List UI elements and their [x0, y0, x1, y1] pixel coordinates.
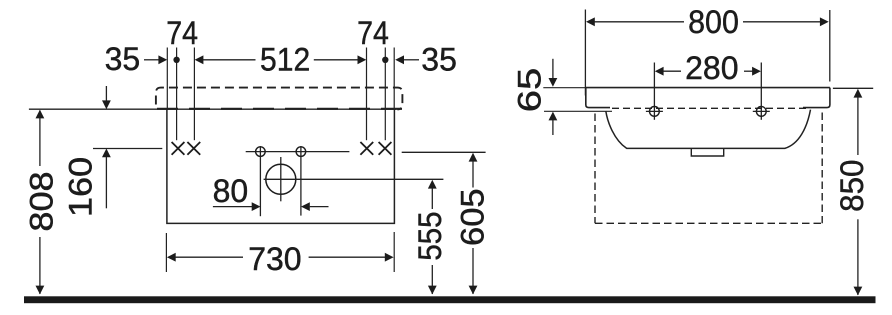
wire 160 top arrow stem: [105, 86, 107, 101]
dim 808 vertical line lower segment: [39, 237, 41, 294]
arrow 35L right-pointing: [158, 55, 167, 64]
arrow 800 left-pointing: [586, 17, 595, 26]
extension line 280 right: [760, 63, 762, 120]
svg-text:730: 730: [248, 241, 301, 277]
wire tap hole left horizontal tick: [646, 110, 663, 112]
svg-text:850: 850: [834, 160, 870, 212]
washbasin bowl profile: [606, 110, 811, 149]
arrow 280 right-pointing: [752, 67, 761, 76]
arrow 35R left-pointing: [395, 55, 404, 64]
arrow 605 top up-pointing: [469, 153, 478, 162]
dim 555 lower stem: [431, 265, 433, 294]
arrow 808 bottom down-pointing: [36, 286, 45, 295]
arrow 850 top up-pointing: [854, 89, 863, 98]
dim 808 vertical line upper segment: [39, 111, 41, 167]
tap hole circle left (side view): [650, 107, 660, 117]
svg-text:555: 555: [412, 212, 448, 261]
extension line 800 right: [829, 10, 831, 82]
node dot left hole: [173, 57, 179, 63]
arrow 80 left-pointing: [301, 202, 310, 211]
svg-text:160: 160: [63, 157, 99, 217]
arrow 555 top up-pointing: [428, 180, 437, 189]
wire 800 dim line left: [594, 21, 684, 23]
svg-text:80: 80: [213, 173, 249, 209]
extension line cabinet left edge (top): [166, 48, 168, 110]
arrow 730 left-pointing: [167, 253, 176, 262]
wire drain center line to 555: [264, 178, 444, 180]
wire tap-hole level extension to 605: [402, 151, 486, 153]
tap hole circle right (side view): [756, 107, 766, 117]
dim 850 upper stem: [857, 97, 859, 155]
wire tap hole left vertical crosshair: [259, 146, 261, 216]
wire 280 dim line right: [744, 70, 753, 72]
wire 80 dim line left: [213, 206, 252, 208]
svg-text:800: 800: [688, 4, 739, 40]
dim 605 lower stem: [472, 248, 474, 294]
wire 160 bottom arrow stem: [105, 157, 107, 208]
wire 65 top arrow stem: [552, 59, 554, 79]
washbasin dashed outline front view: [156, 88, 403, 110]
wire 35R dim line: [404, 59, 419, 61]
wire 35L dim line: [144, 59, 159, 61]
arrow 850 bottom down-pointing: [854, 287, 863, 296]
arrow 512 right-pointing: [358, 55, 367, 64]
svg-text:35: 35: [421, 42, 457, 78]
wire basin top extension left: [543, 87, 586, 89]
wire 280 dim line left: [663, 70, 681, 72]
wire 850 top extension line: [833, 87, 873, 89]
arrow 808 top up-pointing: [36, 110, 45, 119]
extension line hole R2: [384, 48, 386, 141]
arrow 605 bottom down-pointing: [469, 286, 478, 295]
wire X-hole level line (left of cabinet): [93, 148, 162, 150]
svg-text:512: 512: [260, 42, 310, 78]
arrow 65 top down-pointing: [549, 78, 558, 87]
extension line 730 left: [165, 233, 167, 272]
wire 512 dim line left part: [203, 59, 256, 61]
tap hole circle left: [256, 147, 266, 157]
wire drain hole vertical crosshair: [280, 157, 282, 201]
mounting hole X mark 3: [360, 142, 373, 155]
arrow 160 top down-pointing: [102, 100, 111, 109]
svg-text:35: 35: [105, 41, 141, 77]
arrow 512 left-pointing: [195, 55, 204, 64]
wire wall top line left view: [29, 108, 396, 110]
mounting hole X mark 2: [187, 142, 200, 155]
washbasin dashed bottom edge (long dashes): [157, 108, 402, 110]
svg-text:280: 280: [685, 50, 738, 86]
wire 730 dim line left: [175, 256, 243, 258]
extension line 730 right: [393, 232, 395, 272]
wire tap hole right horizontal tick: [753, 110, 770, 112]
wire 65 bottom arrow stem: [552, 120, 554, 135]
wire basin underside extension left: [544, 110, 612, 112]
arrow 65 bottom up-pointing: [549, 112, 558, 121]
mounting hole X mark 4: [379, 142, 392, 155]
arrow 160 bottom up-pointing: [102, 149, 111, 158]
arrow 280 left-pointing: [655, 67, 664, 76]
extension line cabinet right edge (top): [393, 48, 395, 110]
mounting hole X mark 1: [172, 142, 185, 155]
extension line 280 left: [653, 63, 655, 120]
wire tap-hole center line: [246, 151, 350, 153]
wire 80 dim line right: [310, 206, 329, 208]
dashed clearance box right edge: [821, 113, 823, 224]
node dot right hole: [382, 57, 388, 63]
tap hole circle right: [296, 147, 306, 157]
extension line hole L1: [176, 48, 178, 141]
vanity unit outline: [167, 109, 395, 223]
dashed clearance box left edge: [594, 114, 596, 224]
washbasin rim hidden bottom edge (dashed): [612, 107, 806, 109]
arrow 80 right-pointing: [252, 202, 261, 211]
washbasin rim side/profile rect: [586, 88, 830, 108]
svg-text:74: 74: [166, 16, 198, 51]
svg-text:65: 65: [512, 68, 548, 113]
extension line hole L2: [193, 48, 195, 141]
svg-text:74: 74: [357, 16, 389, 51]
wire 800 dim line right: [743, 21, 821, 23]
dim 555 upper stem: [431, 188, 433, 209]
extension line 800 left: [584, 10, 586, 96]
dashed clearance box bottom edge: [595, 222, 822, 224]
svg-text:808: 808: [24, 171, 60, 231]
svg-text:605: 605: [456, 188, 492, 246]
floor line: [24, 296, 876, 303]
drain hole circle: [266, 164, 296, 194]
dim 605 upper stem: [472, 161, 474, 188]
wire 512 dim line right part: [314, 59, 358, 61]
arrow 730 right-pointing: [385, 253, 394, 262]
arrow 800 right-pointing: [820, 17, 829, 26]
wire 730 dim line right: [309, 256, 386, 258]
drain tailpiece: [691, 148, 723, 156]
extension line hole R1: [366, 48, 368, 141]
wire tap hole right vertical crosshair: [300, 146, 302, 216]
arrow 555 bottom down-pointing: [428, 286, 437, 295]
dim 850 lower stem: [857, 219, 859, 295]
